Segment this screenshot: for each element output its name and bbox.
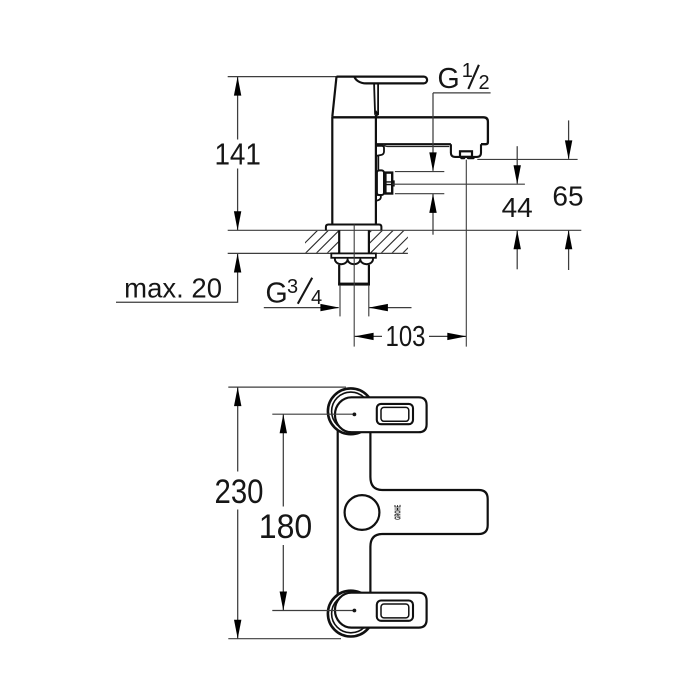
body left edge bbox=[337, 425, 339, 599]
lever stem bbox=[374, 83, 375, 114]
svg-text:3: 3 bbox=[287, 276, 298, 298]
dim 230 bbox=[237, 387, 239, 639]
dim 180 bbox=[282, 414, 284, 610]
base flange bbox=[326, 225, 382, 231]
svg-text:GROHE: GROHE bbox=[392, 505, 402, 520]
body joint + spout top + spout right end + spout bottom bbox=[332, 117, 488, 144]
aerator mesh bumps bbox=[460, 157, 465, 160]
hose nipple flange bbox=[377, 170, 384, 195]
svg-text:G: G bbox=[438, 63, 460, 95]
svg-text:230: 230 bbox=[215, 473, 264, 511]
boss face bbox=[377, 156, 379, 170]
svg-text:180: 180 bbox=[259, 508, 313, 546]
hose nipple body G 1/2 bbox=[385, 173, 392, 194]
upper body (cartridge housing) left edge bbox=[332, 77, 336, 117]
threaded shank G 3/4 bbox=[338, 265, 340, 286]
aerator centerline bbox=[465, 160, 467, 347]
hose level line (44) bbox=[392, 183, 525, 185]
boss lower step bbox=[377, 195, 381, 201]
G1/2 extension lines bbox=[395, 171, 444, 173]
svg-text:103: 103 bbox=[386, 321, 426, 353]
body neck + housing outline bbox=[370, 431, 487, 594]
dim 44 bbox=[516, 146, 518, 183]
svg-text:141: 141 bbox=[214, 137, 261, 172]
dim max. 20 bbox=[116, 254, 238, 303]
G3/4 extension lines bbox=[339, 286, 341, 317]
castellated locknut bbox=[335, 258, 373, 264]
svg-text:1: 1 bbox=[462, 60, 473, 82]
dim 141 line bbox=[237, 77, 239, 231]
deck top line bbox=[228, 229, 582, 231]
aerator insert bbox=[460, 151, 472, 157]
hose outlet boss step bbox=[377, 146, 384, 156]
deck hatching bbox=[295, 230, 426, 253]
bottom union nut bbox=[377, 601, 413, 621]
faucet lever bar bbox=[337, 77, 428, 84]
deck bottom line bbox=[228, 252, 408, 254]
faucet centerline bbox=[353, 224, 355, 346]
bottom union block bbox=[335, 593, 427, 628]
extension line top (lever level) bbox=[228, 76, 337, 78]
top union nut bbox=[377, 404, 413, 424]
bottom escutcheon inner circle bbox=[332, 594, 370, 632]
svg-text:44: 44 bbox=[502, 192, 533, 223]
top escutcheon inner circle bbox=[332, 392, 370, 430]
washer below deck bbox=[331, 253, 376, 257]
spout far-side underside line bbox=[384, 144, 450, 146]
aerator housing bbox=[451, 144, 481, 157]
body lower: left and right edges bbox=[331, 117, 333, 224]
svg-text:2: 2 bbox=[479, 72, 490, 94]
svg-text:max. 20: max. 20 bbox=[124, 273, 222, 304]
svg-text:G: G bbox=[266, 278, 288, 310]
top union block bbox=[335, 397, 427, 432]
handle circle bbox=[345, 495, 380, 530]
ext lines 230 bbox=[228, 386, 346, 388]
dim G 3/4 bbox=[264, 307, 412, 309]
svg-text:65: 65 bbox=[552, 181, 583, 212]
nipple tip bbox=[392, 180, 395, 186]
ext lines 180 with centre dots bbox=[272, 413, 353, 415]
svg-text:4: 4 bbox=[311, 287, 322, 309]
spout outlet level line (65) bbox=[477, 158, 577, 160]
dim 65 bbox=[568, 120, 570, 158]
bottom escutcheon outer circle bbox=[328, 591, 374, 637]
top escutcheon outer circle bbox=[328, 388, 374, 434]
shank through deck bbox=[338, 230, 340, 253]
dim 103 bbox=[355, 335, 467, 337]
